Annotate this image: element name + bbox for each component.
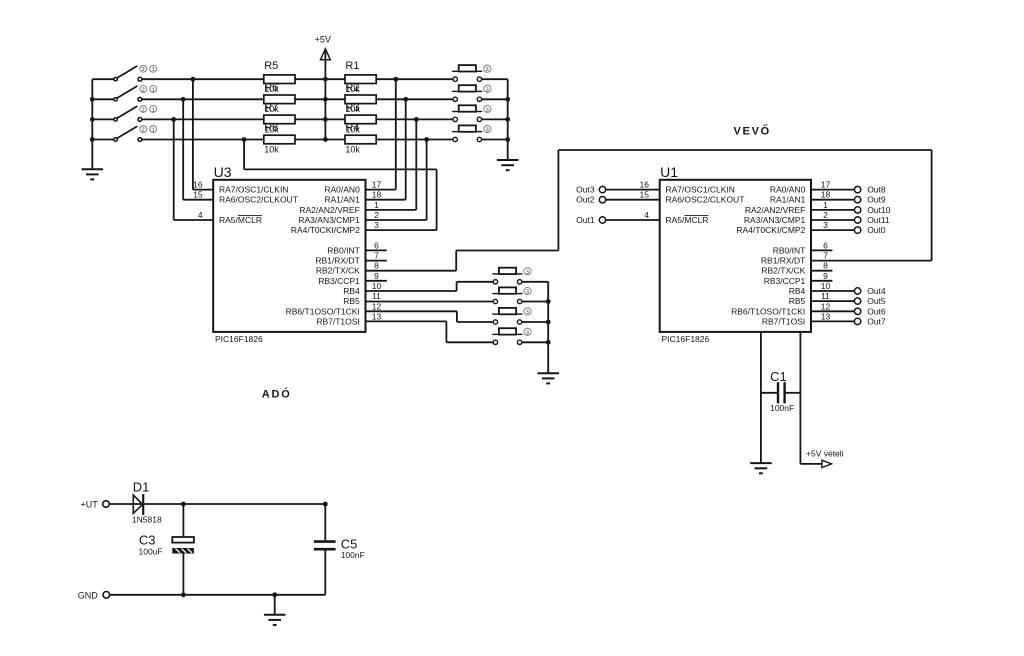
wire right btn gnd bus xyxy=(507,79,509,160)
wire row 2 R6 to R2 xyxy=(295,98,345,100)
svg-text:RB7/T1OSI: RB7/T1OSI xyxy=(762,316,805,326)
svg-text:GND: GND xyxy=(78,591,99,601)
ground power section xyxy=(264,615,286,625)
svg-text:3: 3 xyxy=(486,107,489,113)
svg-text:1: 1 xyxy=(152,128,155,134)
node C3 top xyxy=(181,502,186,507)
wire U1 to Out6 xyxy=(811,310,854,312)
node +5V bus row 4 xyxy=(323,137,328,142)
svg-text:2: 2 xyxy=(142,128,145,134)
node row 1 riser xyxy=(191,77,196,82)
svg-text:13: 13 xyxy=(372,311,382,321)
svg-text:8: 8 xyxy=(823,261,828,271)
svg-text:RA0/AN0: RA0/AN0 xyxy=(324,185,360,195)
wire middle btn 4 to gnd bus xyxy=(522,341,548,343)
svg-text:1: 1 xyxy=(152,87,155,93)
node +5V bus row 1 xyxy=(323,77,328,82)
svg-text:10: 10 xyxy=(821,281,831,291)
pin stub 7 U3 xyxy=(366,260,387,262)
pin stub 9 U1 xyxy=(811,280,832,282)
ground U1 xyxy=(750,463,772,473)
svg-text:1: 1 xyxy=(152,107,155,113)
svg-text:RA6/OSC2/CLKOUT: RA6/OSC2/CLKOUT xyxy=(666,195,745,205)
wire U3 pin13 to button xyxy=(366,320,447,322)
svg-text:RB1/RX/DT: RB1/RX/DT xyxy=(761,256,805,266)
wire row 2 R2 to button xyxy=(376,98,453,100)
svg-text:+5V vételi: +5V vételi xyxy=(806,449,844,459)
pushbutton S5 xyxy=(452,65,491,81)
svg-text:U1: U1 xyxy=(660,164,678,180)
svg-text:RB4: RB4 xyxy=(343,286,360,296)
wire row 3 to U3 pin 4 xyxy=(173,119,175,220)
wire Out1 to U1 xyxy=(606,219,660,221)
svg-text:RA4/T0CKI/CMP2: RA4/T0CKI/CMP2 xyxy=(291,225,360,235)
svg-text:6: 6 xyxy=(374,240,379,250)
wire row 3 to U3 pin 1 xyxy=(415,119,417,209)
wire U3 pin12 to button xyxy=(366,310,457,312)
svg-text:RB2/TX/CK: RB2/TX/CK xyxy=(761,266,805,276)
wire U1 to Out0 xyxy=(811,229,854,231)
wire row 1 R5 to R1 xyxy=(295,78,345,80)
svg-text:16: 16 xyxy=(640,180,650,190)
svg-text:2: 2 xyxy=(823,210,828,220)
node middle btn bus xyxy=(546,340,551,345)
capacitor C5 xyxy=(324,504,326,540)
svg-text:16: 16 xyxy=(193,180,203,190)
wire row 1 to U3 pin 16 xyxy=(192,79,194,189)
terminal +UT xyxy=(103,501,110,508)
supply arrow +5V vételi xyxy=(822,460,832,467)
svg-text:13: 13 xyxy=(821,311,831,321)
pin stub 6 U3 xyxy=(366,249,387,251)
svg-text:RB7/T1OSI: RB7/T1OSI xyxy=(316,316,359,326)
svg-text:10: 10 xyxy=(372,281,382,291)
wire row 3 switch to R7 xyxy=(142,118,264,120)
svg-text:10k: 10k xyxy=(264,144,279,154)
wire +UT to D1 xyxy=(110,503,134,505)
resistor R8 xyxy=(264,135,295,144)
svg-text:U3: U3 xyxy=(214,164,232,180)
svg-text:Out0: Out0 xyxy=(867,225,886,235)
svg-text:Out1: Out1 xyxy=(576,215,595,225)
svg-text:10k: 10k xyxy=(345,144,360,154)
svg-text:+5V: +5V xyxy=(315,35,331,45)
terminal Out9 xyxy=(854,197,860,203)
svg-text:3: 3 xyxy=(526,270,529,276)
svg-text:Out7: Out7 xyxy=(867,316,886,326)
svg-text:RA2/AN2/VREF: RA2/AN2/VREF xyxy=(299,205,359,215)
wire row 3 R3 to button xyxy=(376,118,453,120)
svg-text:RB3/CCP1: RB3/CCP1 xyxy=(764,276,806,286)
pushbutton S8 xyxy=(452,125,491,141)
wire row 2 button to gnd bus xyxy=(481,98,507,100)
pushbutton S7 xyxy=(452,105,491,121)
wire row 2 switch to R6 xyxy=(142,98,264,100)
svg-text:RB0/INT: RB0/INT xyxy=(773,245,806,255)
diode D1 xyxy=(133,503,143,505)
svg-text:ADÓ: ADÓ xyxy=(262,388,292,401)
wire row 4 switch to R8 xyxy=(142,139,264,141)
node C5 top xyxy=(323,502,328,507)
wire U1 VDD down xyxy=(799,332,801,464)
svg-text:Out9: Out9 xyxy=(867,195,886,205)
terminal Out8 xyxy=(854,186,860,192)
wire U1 to Out4 xyxy=(811,290,854,292)
svg-text:RB4: RB4 xyxy=(789,286,806,296)
wire bus to switch row 2 xyxy=(92,98,114,100)
svg-text:RA5/MCLR: RA5/MCLR xyxy=(666,215,709,225)
svg-text:7: 7 xyxy=(823,251,828,261)
resistor R6 xyxy=(264,95,295,104)
capacitor C3 (electrolytic) xyxy=(182,504,184,537)
switch S3 xyxy=(114,106,157,122)
svg-text:18: 18 xyxy=(821,190,831,200)
svg-text:RB6/T1OSO/T1CKI: RB6/T1OSO/T1CKI xyxy=(286,306,360,316)
svg-text:100nF: 100nF xyxy=(341,550,365,560)
terminal Out3 xyxy=(599,186,605,192)
svg-text:PIC16F1826: PIC16F1826 xyxy=(662,334,710,344)
svg-text:Out6: Out6 xyxy=(867,306,886,316)
wire row 2 to U3 pin 18 xyxy=(405,99,407,199)
wire row 4 R8 to R4 xyxy=(295,139,345,141)
svg-text:4: 4 xyxy=(198,210,203,220)
svg-text:1: 1 xyxy=(374,200,379,210)
svg-text:3: 3 xyxy=(486,67,489,73)
svg-text:RA7/OSC1/CLKIN: RA7/OSC1/CLKIN xyxy=(666,185,735,195)
terminal Out6 xyxy=(854,308,860,314)
wire row 1 button to gnd bus xyxy=(481,78,507,80)
wire U1 to Out10 xyxy=(811,209,854,211)
svg-text:1: 1 xyxy=(823,200,828,210)
svg-text:Out8: Out8 xyxy=(867,185,886,195)
svg-text:R5: R5 xyxy=(264,60,278,72)
wire +5V bus xyxy=(324,50,326,140)
svg-text:RA1/AN1: RA1/AN1 xyxy=(324,195,360,205)
svg-text:RA3/AN3/CMP1: RA3/AN3/CMP1 xyxy=(744,215,806,225)
svg-text:100uF: 100uF xyxy=(139,547,163,557)
svg-text:RA5/MCLR: RA5/MCLR xyxy=(219,215,262,225)
svg-text:10k: 10k xyxy=(264,84,279,94)
svg-text:3: 3 xyxy=(486,128,489,134)
svg-text:RB5: RB5 xyxy=(789,296,806,306)
wire row 4 to U3 pin 2 xyxy=(426,140,428,221)
node row 4 tap xyxy=(242,137,247,142)
wire bus to switch row 1 xyxy=(92,78,114,80)
node +5V bus row 2 xyxy=(323,97,328,102)
pushbutton S10 xyxy=(492,287,531,303)
wire Out2 to U1 xyxy=(606,199,660,201)
svg-text:RB6/T1OSO/T1CKI: RB6/T1OSO/T1CKI xyxy=(731,306,805,316)
svg-text:C5: C5 xyxy=(341,536,358,551)
wire U1 to Out8 xyxy=(811,189,854,191)
terminal Out1 xyxy=(599,217,605,223)
wire row 4 R4 to button xyxy=(376,139,453,141)
switch S2 xyxy=(114,86,157,102)
svg-text:15: 15 xyxy=(640,190,650,200)
wire U3 pin10 to button xyxy=(366,290,457,292)
terminal Out4 xyxy=(854,288,860,294)
wire U1 to Out9 xyxy=(811,199,854,201)
wire bus to switch row 3 xyxy=(92,118,114,120)
svg-text:12: 12 xyxy=(372,301,382,311)
capacitor C1 xyxy=(761,392,777,394)
svg-text:4: 4 xyxy=(644,210,649,220)
pin stub 6 U1 xyxy=(811,249,832,251)
svg-text:6: 6 xyxy=(823,240,828,250)
svg-text:RB1/RX/DT: RB1/RX/DT xyxy=(315,256,359,266)
svg-text:RB5: RB5 xyxy=(343,296,360,306)
svg-text:RB0/INT: RB0/INT xyxy=(327,245,360,255)
wire Out3 to U1 xyxy=(606,189,660,191)
node gnd tap xyxy=(272,592,277,597)
svg-text:8: 8 xyxy=(374,261,379,271)
wire middle btn 1 to gnd bus xyxy=(522,281,548,283)
resistor R7 xyxy=(264,115,295,124)
ground left bank xyxy=(82,169,104,179)
svg-text:Out2: Out2 xyxy=(576,195,595,205)
terminal Out11 xyxy=(854,217,860,223)
svg-text:RA6/OSC2/CLKOUT: RA6/OSC2/CLKOUT xyxy=(219,195,298,205)
node row 1 right riser xyxy=(393,77,398,82)
node row 3 riser xyxy=(171,117,176,122)
svg-text:3: 3 xyxy=(823,220,828,230)
resistor R1 xyxy=(345,75,376,84)
wire row 1 R1 to button xyxy=(376,78,453,80)
pushbutton S11 xyxy=(492,308,531,324)
wire TX U3 pin8 to RX U1 pin7 xyxy=(366,270,457,272)
svg-text:VEVŐ: VEVŐ xyxy=(734,124,771,137)
svg-text:15: 15 xyxy=(193,190,203,200)
IC U1 PIC16F1826 box xyxy=(660,180,811,332)
wire middle btn 2 to gnd bus xyxy=(522,301,548,303)
wire middle btn gnd bus xyxy=(547,282,549,373)
svg-text:C3: C3 xyxy=(139,533,156,548)
pushbutton S12 xyxy=(492,328,531,344)
node bus row 4 xyxy=(90,137,95,142)
svg-text:10k: 10k xyxy=(345,104,360,114)
svg-text:Out3: Out3 xyxy=(576,185,595,195)
switch S4 xyxy=(114,126,157,142)
wire U1 to Out5 xyxy=(811,300,854,302)
svg-text:9: 9 xyxy=(823,271,828,281)
svg-text:RA0/AN0: RA0/AN0 xyxy=(770,185,806,195)
wire middle btn 3 to gnd bus xyxy=(522,321,548,323)
wire row 4 to U3 pin 3 xyxy=(243,140,245,170)
svg-text:3: 3 xyxy=(526,330,529,336)
svg-text:2: 2 xyxy=(374,210,379,220)
svg-text:D1: D1 xyxy=(133,480,150,495)
svg-text:RA2/AN2/VREF: RA2/AN2/VREF xyxy=(745,205,805,215)
pin stub 9 U3 xyxy=(366,280,387,282)
wire bus to switch row 4 xyxy=(92,139,114,141)
svg-text:100nF: 100nF xyxy=(770,403,794,413)
wire U1 to Out7 xyxy=(811,320,854,322)
pushbutton S9 xyxy=(492,268,531,284)
node middle btn bus xyxy=(546,299,551,304)
svg-text:1N5818: 1N5818 xyxy=(132,515,162,525)
svg-text:10k: 10k xyxy=(264,124,279,134)
svg-text:10k: 10k xyxy=(345,84,360,94)
svg-text:RA1/AN1: RA1/AN1 xyxy=(770,195,806,205)
terminal Out0 xyxy=(854,227,860,233)
svg-text:9: 9 xyxy=(374,271,379,281)
terminal GND xyxy=(103,592,110,599)
resistor R2 xyxy=(345,95,376,104)
node bus row 2 xyxy=(90,97,95,102)
terminal Out7 xyxy=(854,318,860,324)
ground right buttons xyxy=(497,160,519,170)
wire gnd tap down xyxy=(274,595,276,615)
wire row 1 to U3 pin 17 xyxy=(395,79,397,189)
terminal Out10 xyxy=(854,207,860,213)
wire row 2 to U3 pin 15 xyxy=(182,99,184,199)
svg-text:Out4: Out4 xyxy=(867,286,886,296)
svg-text:2: 2 xyxy=(142,107,145,113)
IC U3 PIC16F1826 box xyxy=(213,180,365,332)
terminal Out2 xyxy=(599,197,605,203)
svg-text:Out10: Out10 xyxy=(867,205,890,215)
svg-text:RB3/CCP1: RB3/CCP1 xyxy=(318,276,360,286)
svg-text:2: 2 xyxy=(142,87,145,93)
svg-text:17: 17 xyxy=(821,180,831,190)
terminal Out5 xyxy=(854,298,860,304)
wire GND rail xyxy=(110,594,325,596)
wire left gnd bus xyxy=(91,79,93,169)
wire row 3 R7 to R3 xyxy=(295,118,345,120)
node row 4 right riser xyxy=(424,137,429,142)
resistor R4 xyxy=(345,135,376,144)
supply +5V symbol xyxy=(321,49,331,60)
wire U1 VSS down xyxy=(760,332,762,463)
wire row 3 button to gnd bus xyxy=(481,118,507,120)
svg-text:2: 2 xyxy=(142,67,145,73)
wire row 4 button to gnd bus xyxy=(481,139,507,141)
svg-text:12: 12 xyxy=(821,301,831,311)
pushbutton S6 xyxy=(452,85,491,101)
node C3 bottom xyxy=(181,592,186,597)
svg-text:RB2/TX/CK: RB2/TX/CK xyxy=(316,266,360,276)
node row 2 riser xyxy=(181,97,186,102)
svg-text:Out11: Out11 xyxy=(867,215,890,225)
svg-text:3: 3 xyxy=(526,290,529,296)
svg-text:C1: C1 xyxy=(770,369,787,384)
ground middle buttons xyxy=(537,373,559,383)
svg-text:Out5: Out5 xyxy=(867,296,886,306)
svg-text:RA7/OSC1/CLKIN: RA7/OSC1/CLKIN xyxy=(219,185,288,195)
svg-text:PIC16F1826: PIC16F1826 xyxy=(215,334,263,344)
svg-text:11: 11 xyxy=(821,291,830,301)
wire U1 to Out11 xyxy=(811,219,854,221)
svg-text:RA3/AN3/CMP1: RA3/AN3/CMP1 xyxy=(298,215,360,225)
node btn bus xyxy=(505,97,510,102)
node row 2 right riser xyxy=(403,97,408,102)
svg-text:10k: 10k xyxy=(345,124,360,134)
svg-text:3: 3 xyxy=(486,87,489,93)
switch S1 xyxy=(114,65,157,81)
wire U3 pin11 to button xyxy=(366,301,494,303)
node btn bus xyxy=(505,137,510,142)
wire row 1 switch to R5 xyxy=(142,78,264,80)
svg-text:+UT: +UT xyxy=(81,499,99,509)
pin stub 8 U1 xyxy=(811,270,832,272)
svg-text:3: 3 xyxy=(374,220,379,230)
svg-text:R1: R1 xyxy=(345,60,359,72)
svg-text:1: 1 xyxy=(152,67,155,73)
resistor R3 xyxy=(345,115,376,124)
svg-text:3: 3 xyxy=(526,310,529,316)
node bus row 3 xyxy=(90,117,95,122)
svg-text:7: 7 xyxy=(374,251,379,261)
resistor R5 xyxy=(264,75,295,84)
svg-text:17: 17 xyxy=(372,180,382,190)
svg-text:18: 18 xyxy=(372,190,382,200)
node btn bus xyxy=(505,117,510,122)
node middle btn bus xyxy=(546,320,551,325)
node +5V bus row 3 xyxy=(323,117,328,122)
svg-text:10k: 10k xyxy=(264,104,279,114)
wire D1 to C5 top xyxy=(144,503,325,505)
node row 3 right riser xyxy=(414,117,419,122)
svg-text:RA4/T0CKI/CMP2: RA4/T0CKI/CMP2 xyxy=(736,225,805,235)
svg-text:11: 11 xyxy=(372,291,381,301)
